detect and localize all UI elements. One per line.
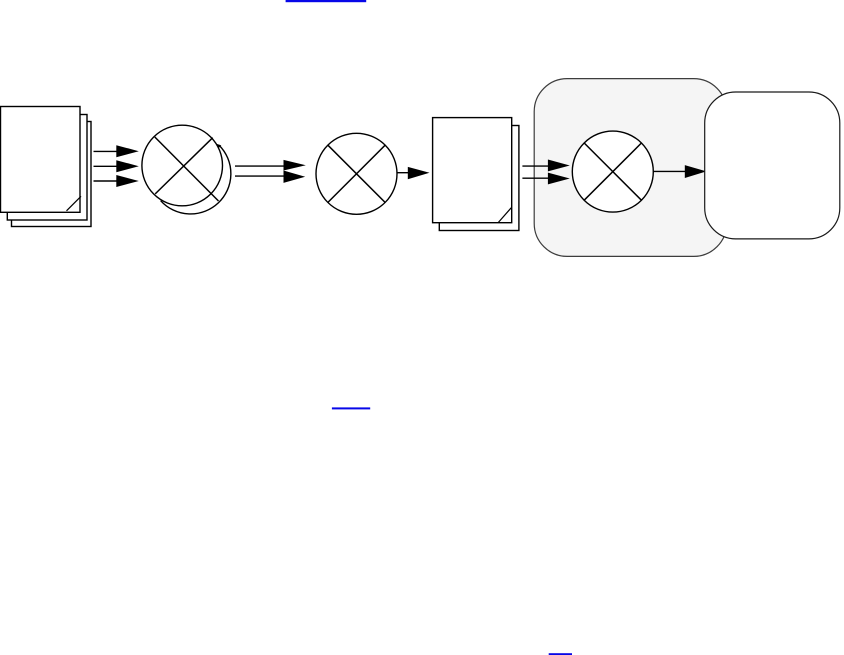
double wire W2 upper line — [522, 165, 549, 167]
transform circle T2 — [316, 133, 397, 214]
transform circle T1 cross line 1 — [155, 137, 219, 201]
transform circle T3 cross line 1 — [584, 143, 641, 200]
arrow A2 wire — [94, 165, 119, 167]
grey rounded container G1 — [534, 79, 727, 257]
document stack D1 folded corner — [67, 196, 82, 211]
double wire W2 lower line — [522, 177, 549, 179]
document stack D2 folded corner — [498, 208, 511, 223]
iteration loop L1 around T1 — [161, 145, 231, 214]
white rounded box B1 — [705, 92, 840, 239]
double wire W2 upper arrowhead — [548, 160, 570, 172]
transform circle T3 — [572, 131, 653, 212]
document stack D1 front sheet — [1, 107, 81, 213]
transform circle T3 cross line 2 — [584, 143, 641, 200]
arrow A4 wire — [398, 172, 410, 174]
double wire W1 lower arrowhead — [284, 171, 306, 183]
arrow A4 head — [408, 167, 430, 179]
document stack D2 back sheet — [439, 126, 519, 231]
arrow A1 head — [116, 145, 139, 157]
double wire W2 lower arrowhead — [548, 173, 570, 185]
double wire W1 upper arrowhead — [284, 160, 306, 171]
link underline middle — [332, 407, 370, 409]
arrow A2 head — [116, 160, 139, 172]
transform circle T2 cross line 2 — [328, 145, 385, 202]
document stack D2 front sheet — [433, 118, 512, 223]
arrow A3 wire — [94, 180, 119, 182]
iteration loop L1 arrowhead — [216, 144, 221, 149]
double wire W1 upper line — [235, 165, 285, 167]
document stack D1 middle sheet — [7, 115, 87, 221]
double wire W1 lower line — [235, 175, 285, 177]
document stack D1 back sheet — [12, 122, 92, 227]
transform circle T1 — [142, 125, 223, 206]
arrow A1 wire — [94, 150, 119, 152]
transform circle T2 cross line 1 — [328, 145, 385, 202]
link underline top — [286, 0, 367, 2]
transform circle T1 cross line 2 — [155, 138, 213, 194]
arrow A5 wire — [653, 170, 686, 172]
arrow A3 head — [116, 175, 139, 187]
link underline bottom — [549, 653, 572, 655]
arrow A5 head — [685, 165, 707, 178]
